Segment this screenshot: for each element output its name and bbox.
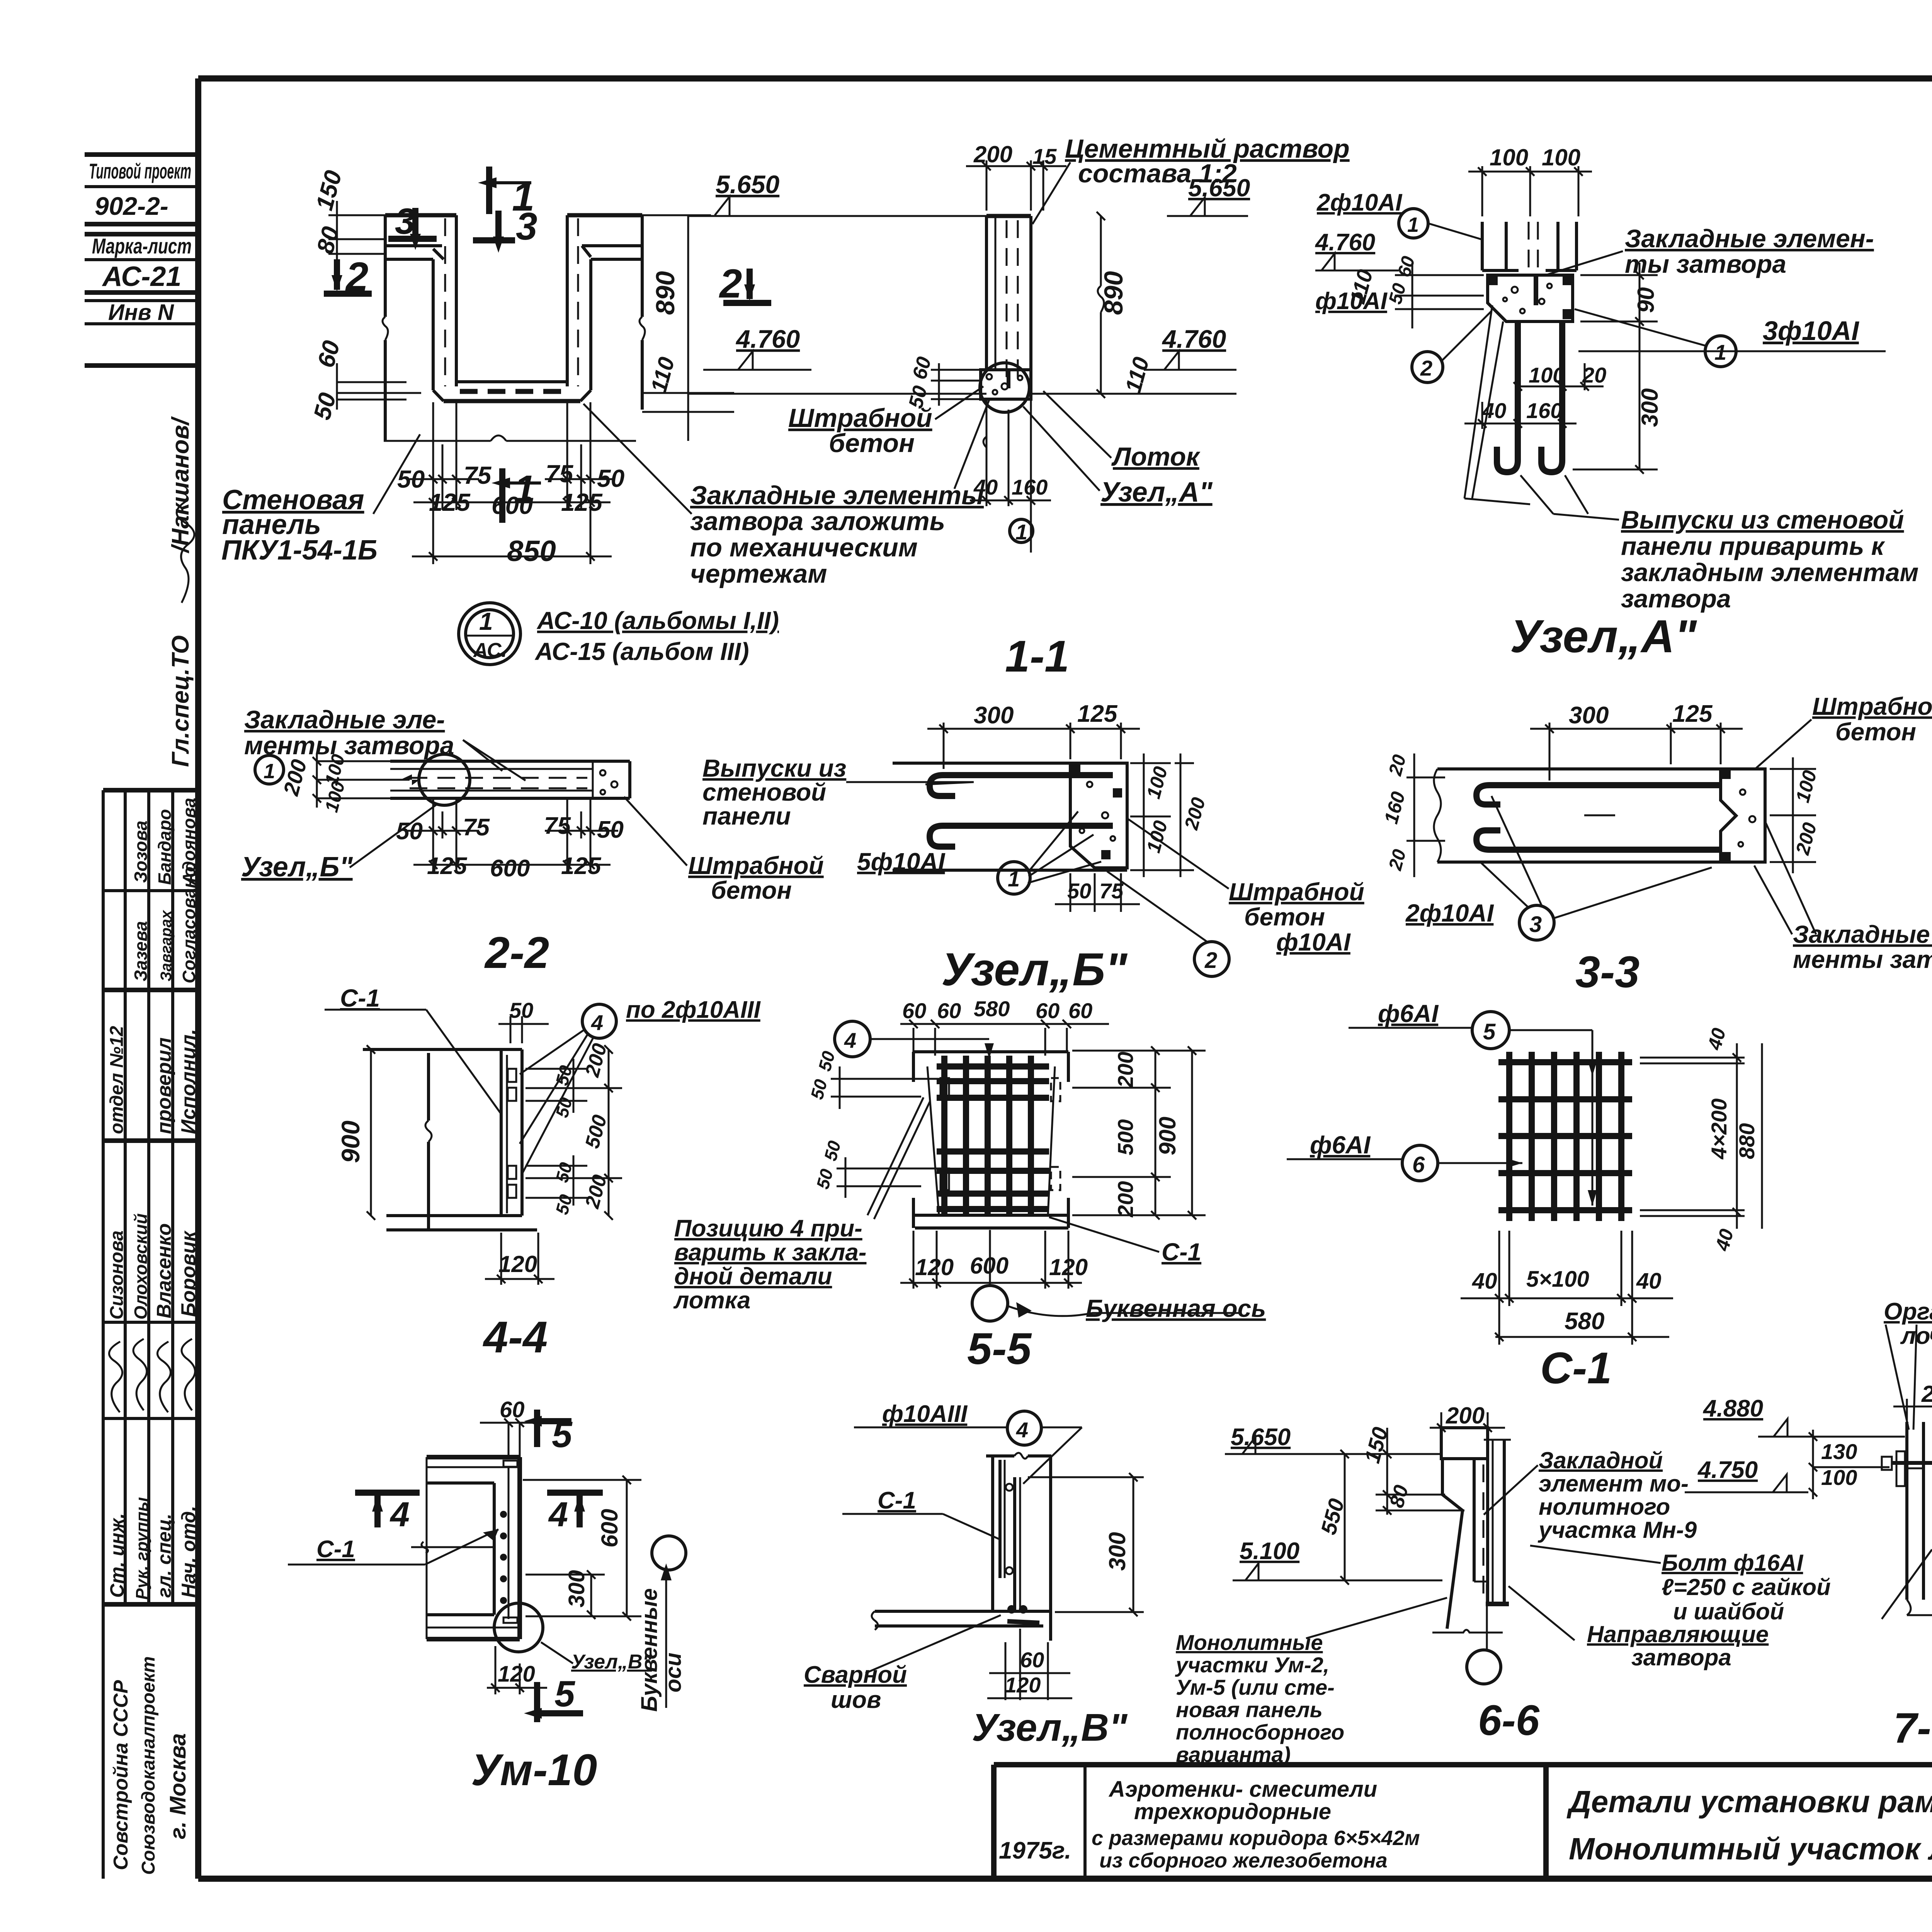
svg-text:Буквенная ось: Буквенная ось bbox=[1086, 1294, 1266, 1322]
4-4 dim 900 bbox=[367, 1045, 375, 1220]
svg-text:проверил: проверил bbox=[153, 1037, 175, 1134]
svg-text:125: 125 bbox=[1077, 701, 1118, 727]
po 2ф10АIII label bbox=[582, 1004, 616, 1038]
svg-text:Монолитные: Монолитные bbox=[1176, 1630, 1323, 1655]
svg-text:Узел„Б": Узел„Б" bbox=[241, 852, 353, 883]
7-7 elevation 4.750 bbox=[1685, 1457, 1808, 1492]
svg-text:нолитного: нолитного bbox=[1539, 1494, 1670, 1520]
svg-text:отдел №12: отдел №12 bbox=[107, 1026, 127, 1134]
svg-text:Ум-5 (или сте-: Ум-5 (или сте- bbox=[1176, 1675, 1335, 1699]
svg-text:2: 2 bbox=[345, 254, 368, 299]
svg-text:60: 60 bbox=[1020, 1648, 1044, 1672]
wall hidden dashes bbox=[444, 218, 446, 386]
svg-text:50: 50 bbox=[1067, 879, 1091, 903]
Um-10 top 60 dim bbox=[480, 1418, 534, 1459]
svg-text:Рук. группы: Рук. группы bbox=[133, 1497, 151, 1600]
3-3 rebars bbox=[1476, 785, 1721, 850]
uzel B bottom dims 50 75 bbox=[1055, 873, 1140, 912]
svg-text:3: 3 bbox=[395, 201, 415, 242]
svg-text:г. Москва: г. Москва bbox=[165, 1733, 190, 1839]
ledge edges right bbox=[582, 244, 642, 247]
svg-text:40: 40 bbox=[973, 475, 998, 499]
left small dims 110 50 60 bbox=[1395, 263, 1484, 328]
uzel B top dims 300 125 bbox=[927, 723, 1140, 769]
svg-text:Союзводоканалпроект: Союзводоканалпроект bbox=[138, 1656, 159, 1875]
5-5 left small dims bbox=[831, 1066, 943, 1198]
level lines left bbox=[688, 216, 986, 394]
svg-text:50: 50 bbox=[597, 816, 624, 843]
svg-text:5×100: 5×100 bbox=[1526, 1267, 1589, 1292]
uzel B panel strip bbox=[893, 763, 1127, 870]
bukvennaya os' label bbox=[972, 1286, 1008, 1321]
svg-text:Аэротенки- смесители: Аэротенки- смесители bbox=[1108, 1777, 1377, 1802]
elevation 5.650 bbox=[715, 170, 779, 215]
svg-text:Буквенные: Буквенные bbox=[637, 1588, 662, 1712]
rebar outlets below block bbox=[1497, 321, 1562, 472]
glass plate bbox=[1896, 1451, 1905, 1486]
svg-text:новая панель: новая панель bbox=[1176, 1697, 1323, 1722]
stamp texts bbox=[89, 159, 192, 325]
svg-text:бетон: бетон bbox=[829, 429, 915, 458]
bottom dims of 2-2 bbox=[408, 798, 618, 873]
bolt bbox=[1892, 1461, 1932, 1465]
svg-text:Монолитный участок лотка Ум-10: Монолитный участок лотка Ум-10 bbox=[1569, 1832, 1932, 1866]
ledge edges left bbox=[385, 244, 442, 247]
svg-text:600: 600 bbox=[597, 1509, 622, 1548]
3-3 right dims bbox=[1770, 757, 1816, 873]
3-3 block bbox=[1721, 769, 1765, 862]
svg-text:2ф10АI: 2ф10АI bbox=[1316, 189, 1403, 216]
svg-text:Зазева: Зазева bbox=[131, 921, 151, 981]
2-2 panel strip bbox=[390, 761, 630, 798]
svg-text:Завгарах: Завгарах bbox=[158, 910, 175, 981]
7-7 dims 130 100 bbox=[1809, 1430, 1889, 1499]
svg-text:50: 50 bbox=[509, 998, 533, 1022]
svg-text:40: 40 bbox=[1636, 1269, 1662, 1294]
svg-text:125: 125 bbox=[561, 853, 602, 879]
label outlets from panel bbox=[1621, 505, 1918, 613]
svg-text:С-1: С-1 bbox=[1540, 1344, 1612, 1393]
legend circle 1/AC bbox=[459, 603, 779, 665]
svg-text:Сизонова: Сизонова bbox=[107, 1230, 127, 1320]
svg-text:ПКУ1-54-1Б: ПКУ1-54-1Б bbox=[221, 535, 378, 566]
leaders to outlets bbox=[1464, 305, 1619, 520]
5-5 mesh bars bbox=[937, 1056, 1049, 1217]
svg-text:1: 1 bbox=[1407, 213, 1419, 236]
elevation 5.650 right of 1-1 bbox=[1167, 174, 1250, 216]
svg-text:бетон: бетон bbox=[1835, 718, 1916, 746]
svg-text:4: 4 bbox=[1016, 1418, 1028, 1442]
svg-text:Бандаро: Бандаро bbox=[155, 809, 175, 885]
svg-text:Типовой проект: Типовой проект bbox=[89, 159, 191, 183]
shtrabnoy label top right of 3-3 bbox=[1812, 692, 1932, 746]
svg-text:ф6АI: ф6АI bbox=[1378, 1000, 1439, 1027]
label vypuski (between 2-2 and uzel B) bbox=[702, 754, 846, 830]
svg-text:75: 75 bbox=[463, 814, 490, 841]
5-5 formwork bbox=[913, 1052, 1068, 1228]
svg-text:Узел„А": Узел„А" bbox=[1100, 477, 1213, 508]
svg-text:Узел„А": Узел„А" bbox=[1510, 611, 1697, 662]
svg-text:500: 500 bbox=[1113, 1119, 1138, 1155]
svg-text:4.880: 4.880 bbox=[1702, 1395, 1763, 1422]
svg-text:гл. спец.: гл. спец. bbox=[153, 1514, 175, 1598]
svg-text:890: 890 bbox=[1099, 271, 1128, 315]
below-wall dims 40 160 bbox=[970, 399, 1051, 553]
svg-text:полносборного: полносборного bbox=[1176, 1720, 1344, 1744]
svg-text:580: 580 bbox=[1565, 1308, 1604, 1335]
svg-text:Зозова: Зозова bbox=[131, 821, 151, 883]
svg-text:2: 2 bbox=[1204, 948, 1217, 973]
svg-text:дной детали: дной детали bbox=[674, 1263, 832, 1290]
svg-text:850: 850 bbox=[507, 535, 556, 568]
svg-text:100: 100 bbox=[1821, 1465, 1857, 1490]
svg-text:125: 125 bbox=[427, 853, 468, 879]
svg-text:Исполнил.: Исполнил. bbox=[177, 1029, 200, 1134]
label closure elements 2-2 bbox=[244, 705, 454, 760]
right dim 90 bbox=[1580, 263, 1658, 336]
svg-text:1975г.: 1975г. bbox=[999, 1837, 1071, 1864]
elevation 4.760 left of 1-1 bbox=[735, 325, 800, 370]
svg-text:300: 300 bbox=[1637, 388, 1663, 427]
svg-text:Ум-10: Ум-10 bbox=[471, 1745, 597, 1795]
svg-text:участка Мн-9: участка Мн-9 bbox=[1537, 1517, 1697, 1543]
section 1-1 wall bbox=[986, 216, 1031, 383]
label closure elements bbox=[1625, 224, 1874, 278]
6-6 top dim 200 bbox=[1430, 1412, 1505, 1432]
svg-text:4: 4 bbox=[591, 1010, 603, 1035]
4-4 dim 120 bbox=[485, 1233, 554, 1285]
svg-text:панели приварить к: панели приварить к bbox=[1621, 532, 1886, 560]
svg-text:4.750: 4.750 bbox=[1697, 1457, 1758, 1483]
Um-10 channel body bbox=[411, 1457, 520, 1639]
signature table rotated texts row1 names bbox=[107, 798, 200, 1320]
institution block bbox=[110, 1656, 190, 1875]
svg-text:лотка: лотка bbox=[673, 1287, 750, 1314]
4-4 right small dims bbox=[526, 1045, 622, 1220]
row6 roles bbox=[106, 1497, 199, 1600]
left labels bbox=[1315, 189, 1492, 383]
svg-text:и шайбой: и шайбой bbox=[1673, 1599, 1784, 1624]
leader from text to pocket bbox=[954, 400, 989, 489]
ground line bbox=[384, 440, 491, 442]
section mark 3 top-middle bbox=[473, 205, 537, 253]
svg-text:затвора: затвора bbox=[1631, 1645, 1731, 1670]
7-7 elevation 4.880 bbox=[1702, 1395, 1905, 1437]
svg-text:1: 1 bbox=[479, 607, 493, 635]
bottom dimension lines bbox=[410, 402, 614, 564]
svg-text:5.100: 5.100 bbox=[1240, 1538, 1299, 1565]
svg-text:Закладные эле-: Закладные эле- bbox=[244, 705, 445, 734]
svg-text:130: 130 bbox=[1821, 1439, 1857, 1464]
plan view U-channel: panel top edges bbox=[383, 215, 645, 441]
elevation 4.760 right of 1-1 bbox=[1144, 325, 1236, 370]
6-6 labels right bbox=[1537, 1447, 1697, 1543]
svg-text:5-5: 5-5 bbox=[967, 1324, 1032, 1374]
mark 5 top bbox=[524, 1410, 573, 1455]
svarnoy shov label bbox=[804, 1662, 907, 1713]
svg-text:ℓ=250 с гайкой: ℓ=250 с гайкой bbox=[1662, 1574, 1831, 1600]
row5 signatures bbox=[109, 1339, 195, 1412]
svg-text:Сварной: Сварной bbox=[804, 1662, 907, 1688]
svg-text:Совстройна СССР: Совстройна СССР bbox=[110, 1680, 132, 1870]
svg-text:15: 15 bbox=[1032, 144, 1057, 168]
svg-text:по механическим: по механическим bbox=[690, 533, 918, 562]
svg-text:5: 5 bbox=[554, 1673, 575, 1714]
svg-text:200: 200 bbox=[1113, 1181, 1138, 1218]
svg-text:300: 300 bbox=[564, 1570, 589, 1607]
svg-text:902-2-: 902-2- bbox=[95, 192, 168, 220]
uzel A circle on 1-1 bbox=[980, 363, 1029, 412]
svg-text:75: 75 bbox=[544, 813, 571, 839]
svg-text:АС-15 (альбом III): АС-15 (альбом III) bbox=[534, 638, 749, 665]
svg-text:4-4: 4-4 bbox=[483, 1313, 548, 1362]
3-3 panel strip bbox=[1434, 769, 1765, 862]
svg-text:5: 5 bbox=[1483, 1019, 1496, 1044]
circled 2 with label bbox=[1194, 942, 1229, 976]
svg-text:6-6: 6-6 bbox=[1478, 1697, 1540, 1744]
svg-text:Позицию 4 при-: Позицию 4 при- bbox=[674, 1215, 862, 1242]
shtrabnoy beton label of 2-2 bbox=[688, 852, 824, 904]
left dimension column bbox=[328, 201, 421, 410]
5-5 bottom dims bbox=[900, 1231, 1082, 1289]
svg-text:участки Ум-2,: участки Ум-2, bbox=[1175, 1653, 1329, 1677]
svg-text:3ф10АI: 3ф10АI bbox=[1763, 316, 1859, 346]
4-4 wall bbox=[363, 1049, 537, 1230]
svg-text:Органическое пдде-: Органическое пдде- bbox=[1884, 1298, 1932, 1325]
svg-text:С-1: С-1 bbox=[340, 984, 380, 1012]
svg-text:элемент мо-: элемент мо- bbox=[1539, 1471, 1689, 1497]
svg-text:4.760: 4.760 bbox=[735, 325, 800, 353]
label closure elements bottom bbox=[690, 481, 984, 588]
shtrabnoy beton label bbox=[788, 403, 932, 458]
svg-text:300: 300 bbox=[974, 702, 1014, 729]
svg-text:4: 4 bbox=[844, 1028, 856, 1053]
6-6 monolithic label bbox=[1175, 1630, 1344, 1767]
svg-text:160: 160 bbox=[1012, 475, 1048, 499]
uzel B right dims bbox=[1130, 753, 1194, 877]
50 60 dims at pocket bbox=[931, 363, 981, 406]
section mark 1 bottom bbox=[492, 468, 541, 523]
svg-text:200: 200 bbox=[1446, 1403, 1485, 1429]
left thickness dims bbox=[313, 753, 410, 808]
svg-text:100: 100 bbox=[1490, 145, 1528, 170]
right shtrabnoy pocket in strip bbox=[600, 770, 605, 776]
6-6 elevations left bbox=[1225, 1424, 1442, 1580]
right leader 3ф10АI bbox=[1575, 309, 1886, 367]
svg-text:Штрабной: Штрабной bbox=[1812, 692, 1932, 720]
C-1 right dims bbox=[1640, 1043, 1762, 1229]
svg-text:120: 120 bbox=[915, 1254, 954, 1280]
stamp box: Типовой проект bbox=[85, 155, 198, 366]
svg-text:по 2ф10АIII: по 2ф10АIII bbox=[626, 997, 761, 1023]
uzel V drawing bbox=[872, 1453, 1051, 1641]
svg-text:С-1: С-1 bbox=[878, 1487, 916, 1514]
anchor strip inside web bbox=[503, 1461, 517, 1467]
6-6 wall drawing bbox=[1432, 1428, 1511, 1633]
svg-text:100: 100 bbox=[1529, 363, 1565, 387]
svg-text:Олоховский: Олоховский bbox=[131, 1213, 151, 1320]
svg-text:5.650: 5.650 bbox=[716, 170, 779, 199]
leaders from label to strip bbox=[463, 740, 526, 781]
anchor dots bbox=[500, 1511, 507, 1604]
mid break line bbox=[411, 1546, 494, 1548]
svg-text:50: 50 bbox=[397, 465, 425, 493]
7-7 wall drawing bbox=[1882, 1422, 1932, 1615]
right dim 890 / 110 bbox=[642, 215, 734, 441]
svg-text:Согласовано.: Согласовано. bbox=[179, 862, 199, 983]
svg-text:200: 200 bbox=[1113, 1052, 1138, 1088]
Um-10 section marks 4 bbox=[355, 1493, 603, 1534]
circled 1 pos bbox=[1010, 519, 1033, 543]
svg-text:2-2: 2-2 bbox=[484, 928, 549, 978]
svg-text:5.650: 5.650 bbox=[1231, 1424, 1291, 1451]
guide rails bbox=[1486, 1428, 1489, 1604]
svg-text:Лоток: Лоток bbox=[1111, 442, 1201, 471]
7-7 top dim 200 bbox=[1893, 1399, 1932, 1422]
svg-text:АС.: АС. bbox=[473, 639, 507, 662]
svg-text:АС-21: АС-21 bbox=[102, 261, 181, 292]
svg-text:Марка-лист: Марка-лист bbox=[92, 234, 192, 258]
pozition 4 note bbox=[673, 1215, 866, 1314]
pos circle 1 bbox=[255, 755, 284, 784]
svg-text:120: 120 bbox=[498, 1251, 537, 1277]
svg-text:20: 20 bbox=[1582, 363, 1606, 387]
svg-text:1-1: 1-1 bbox=[1005, 632, 1069, 681]
svg-text:125: 125 bbox=[1672, 701, 1713, 727]
anchor strip bbox=[506, 1055, 508, 1213]
svg-text:890: 890 bbox=[651, 271, 680, 315]
channel bottom bbox=[456, 380, 567, 383]
5-5 anchor plates dashed bbox=[940, 1078, 1060, 1190]
3-3 top dims bbox=[1530, 723, 1743, 781]
svg-text:125: 125 bbox=[429, 488, 471, 516]
svg-text:4: 4 bbox=[389, 1495, 410, 1534]
right dim line 890 bbox=[1031, 212, 1236, 398]
4-4 top dim 50 bbox=[498, 1016, 549, 1043]
svg-text:60: 60 bbox=[1068, 998, 1092, 1023]
svg-text:затвора заложить: затвора заложить bbox=[690, 507, 945, 536]
svg-text:1: 1 bbox=[1714, 340, 1726, 364]
svg-text:75: 75 bbox=[1099, 879, 1124, 903]
svg-text:Узел„В": Узел„В" bbox=[972, 1706, 1128, 1749]
svg-text:60: 60 bbox=[902, 998, 926, 1023]
svg-text:Выпуски из стеновой: Выпуски из стеновой bbox=[1621, 505, 1904, 534]
5-5 circled 4 bbox=[835, 1021, 870, 1057]
svg-text:7-7: 7-7 bbox=[1893, 1704, 1932, 1752]
svg-text:2ф10АI: 2ф10АI bbox=[1405, 899, 1494, 927]
svg-text:Закладные эле-: Закладные эле- bbox=[1793, 920, 1932, 948]
cement mortar label bbox=[1065, 134, 1350, 188]
top dims 200 15 bbox=[966, 160, 1066, 211]
svg-text:120: 120 bbox=[1049, 1254, 1088, 1280]
svg-text:160: 160 bbox=[1526, 398, 1562, 423]
right dim 300 bbox=[1573, 336, 1658, 474]
label Стеновая панель ПКУ1-54-1Б bbox=[221, 485, 378, 566]
svg-text:ты затвора: ты затвора bbox=[1625, 250, 1786, 278]
svg-text:300: 300 bbox=[1104, 1532, 1130, 1571]
svg-text:Ст. инж.: Ст. инж. bbox=[106, 1513, 128, 1598]
svg-text:200: 200 bbox=[973, 141, 1012, 167]
svg-text:Нач. отд.: Нач. отд. bbox=[178, 1506, 199, 1598]
section mark 3 top-left bbox=[388, 201, 437, 250]
uzel V circle on Um-10 bbox=[494, 1603, 543, 1652]
svg-text:Боровик: Боровик bbox=[177, 1230, 200, 1317]
svg-text:60: 60 bbox=[1036, 998, 1060, 1023]
svg-text:Детали установки рам для затво: Детали установки рам для затворов. bbox=[1566, 1784, 1932, 1819]
svg-text:75: 75 bbox=[546, 460, 574, 488]
bukvennye osi rotated bbox=[637, 1588, 686, 1712]
margin vertical note Гл.спец.ТО Накшанов bbox=[167, 416, 194, 767]
svg-text:бетон: бетон bbox=[711, 876, 792, 904]
svg-text:4.760: 4.760 bbox=[1315, 229, 1375, 256]
6-6 left dims bbox=[1340, 1428, 1464, 1585]
3-3 left dims 20 160 20 bbox=[1406, 753, 1445, 877]
svg-text:4: 4 bbox=[548, 1495, 568, 1534]
uzel B rebars with hooks bbox=[930, 775, 1113, 847]
svg-text:100: 100 bbox=[1542, 145, 1580, 170]
uzel B block bbox=[1070, 763, 1127, 868]
svg-text:менты затвора: менты затвора bbox=[1793, 946, 1932, 973]
svg-text:с размерами коридора 6×5×42м: с размерами коридора 6×5×42м bbox=[1092, 1827, 1420, 1850]
svg-text:Закладные элементы: Закладные элементы bbox=[690, 481, 984, 510]
svg-text:Власенко: Власенко bbox=[153, 1223, 175, 1318]
top dims 100 100 bbox=[1468, 166, 1592, 216]
uzel A panel above bbox=[1482, 222, 1577, 275]
svg-text:оси: оси bbox=[661, 1653, 686, 1692]
signature table bbox=[103, 790, 198, 1879]
svg-text:40: 40 bbox=[1472, 1269, 1497, 1294]
dims 40 160 bbox=[1464, 402, 1577, 429]
svg-text:880: 880 bbox=[1735, 1123, 1759, 1159]
svg-text:закладным элементам: закладным элементам bbox=[1621, 558, 1918, 587]
svg-text:125: 125 bbox=[561, 488, 603, 516]
section mark 2 right bbox=[719, 261, 771, 306]
svg-text:60: 60 bbox=[937, 998, 961, 1023]
mark 5 bottom bbox=[524, 1673, 583, 1722]
svg-text:900: 900 bbox=[336, 1121, 365, 1163]
shtrabnoy concrete pocket bbox=[981, 370, 1031, 399]
svg-text:панели: панели bbox=[702, 802, 791, 830]
svg-text:3: 3 bbox=[516, 205, 537, 248]
section mark 2 left bbox=[324, 254, 372, 299]
svg-text:3-3: 3-3 bbox=[1575, 947, 1639, 997]
zakladnye label bottom right of 3-3 bbox=[1793, 920, 1932, 973]
svg-text:ф10АIII: ф10АIII bbox=[882, 1401, 968, 1427]
svg-text:ф10АI: ф10АI bbox=[1276, 928, 1351, 956]
channel walls verticals bbox=[384, 215, 387, 317]
svg-text:200: 200 bbox=[1921, 1381, 1932, 1407]
svg-text:600: 600 bbox=[490, 855, 530, 882]
svg-text:90: 90 bbox=[1633, 287, 1659, 313]
svg-text:5.650: 5.650 bbox=[1188, 174, 1250, 202]
svg-text:120: 120 bbox=[498, 1662, 535, 1687]
svg-text:120: 120 bbox=[1005, 1673, 1041, 1697]
title block grid bbox=[994, 1765, 1932, 1879]
uzel V bottom dims bbox=[987, 1629, 1072, 1700]
120 dim below bbox=[487, 1646, 547, 1694]
svg-text:АС-10 (альбомы I,II): АС-10 (альбомы I,II) bbox=[536, 607, 779, 634]
svg-text:Болт ф16АI: Болт ф16АI bbox=[1662, 1550, 1804, 1576]
svg-text:С-1: С-1 bbox=[316, 1536, 355, 1563]
svg-text:/Накшанов/: /Накшанов/ bbox=[167, 416, 194, 554]
leader to wall panel label bbox=[373, 434, 420, 514]
5-5 right dims bbox=[1072, 1046, 1206, 1219]
svg-text:60: 60 bbox=[500, 1397, 525, 1422]
svg-text:580: 580 bbox=[974, 997, 1010, 1021]
svg-text:из сборного железобетона: из сборного железобетона bbox=[1099, 1849, 1388, 1872]
5-5 top dims bbox=[900, 1020, 1109, 1056]
svg-text:4.760: 4.760 bbox=[1162, 325, 1226, 353]
